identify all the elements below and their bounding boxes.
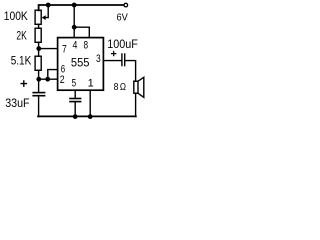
speaker horn (138, 77, 144, 97)
svg-text:33uF: 33uF (5, 96, 30, 110)
capacitor C1 33uF top plate (33, 92, 44, 94)
node dot pin1 ground (88, 114, 93, 119)
svg-text:8: 8 (114, 82, 119, 93)
resistor R3 5.1K body (35, 56, 41, 70)
wire node B to pin 2 (39, 78, 58, 80)
wire pin 5 to capacitor C2 (74, 90, 76, 98)
terminal 6V open circle (124, 3, 128, 7)
resistor R1 100K body (35, 10, 41, 24)
wire C1 to ground rail (38, 96, 40, 116)
wire R3 to node B (38, 70, 40, 79)
potentiometer wiper wire of R1 (43, 5, 48, 18)
wire speaker to ground rail (135, 93, 137, 116)
node A dot junction R2 R3 pin7 (36, 46, 41, 51)
speaker LS1 body (134, 81, 138, 93)
svg-text:3: 3 (96, 53, 101, 65)
plus sign of C1 (21, 81, 26, 86)
wire branch to pin 8 (74, 27, 89, 37)
svg-text:555: 555 (71, 55, 90, 69)
svg-text:8: 8 (84, 39, 89, 51)
wire node B to capacitor C1 (38, 79, 40, 92)
wire C3 to speaker (125, 61, 136, 82)
svg-text:7: 7 (62, 43, 67, 55)
node B dot junction pin6 branch (45, 77, 50, 82)
svg-text:4: 4 (73, 39, 78, 51)
capacitor C2 top plate (70, 98, 81, 100)
wire node B jog to pin 6 (48, 70, 58, 80)
wire R1 to R2 (38, 24, 40, 28)
svg-text:1: 1 (88, 78, 94, 90)
wire pin 1 to ground rail (89, 90, 91, 116)
svg-text:100uF: 100uF (107, 37, 138, 51)
op-amp U1 555 chip body (58, 38, 104, 91)
resistor R2 2K body (35, 28, 41, 42)
node dot rail-pin4 junction (72, 3, 77, 8)
node dot rail-wiper junction (46, 3, 51, 8)
plus sign of C3 (112, 52, 116, 56)
wire bottom ground rail (38, 115, 136, 117)
capacitor C3 100uF left plate (121, 54, 123, 66)
wire pin 3 to capacitor C3 (103, 60, 121, 62)
node dot C2 ground (73, 114, 78, 119)
svg-text:Ω: Ω (120, 82, 126, 93)
svg-text:6V: 6V (117, 12, 128, 23)
wire node A to pin 7 (39, 48, 58, 50)
wire top +6V rail (39, 5, 124, 10)
svg-text:5: 5 (72, 78, 77, 90)
capacitor C3 100uF right plate (124, 54, 126, 66)
wiper arrowhead (42, 15, 46, 20)
node dot pin4 pin8 branch (72, 25, 77, 30)
capacitor C2 bottom plate (70, 101, 81, 103)
svg-text:2K: 2K (16, 29, 27, 43)
wire rail to pin 4 (73, 5, 75, 38)
svg-text:5.1K: 5.1K (11, 54, 32, 68)
node B dot junction R3 C1 (36, 77, 41, 82)
capacitor C1 33uF bottom plate (33, 95, 44, 97)
svg-text:100K: 100K (4, 9, 29, 23)
wire node A to R3 (38, 49, 40, 57)
wire C2 to ground rail (74, 102, 76, 117)
svg-text:2: 2 (60, 74, 65, 86)
wire R2 to node A (38, 42, 40, 48)
